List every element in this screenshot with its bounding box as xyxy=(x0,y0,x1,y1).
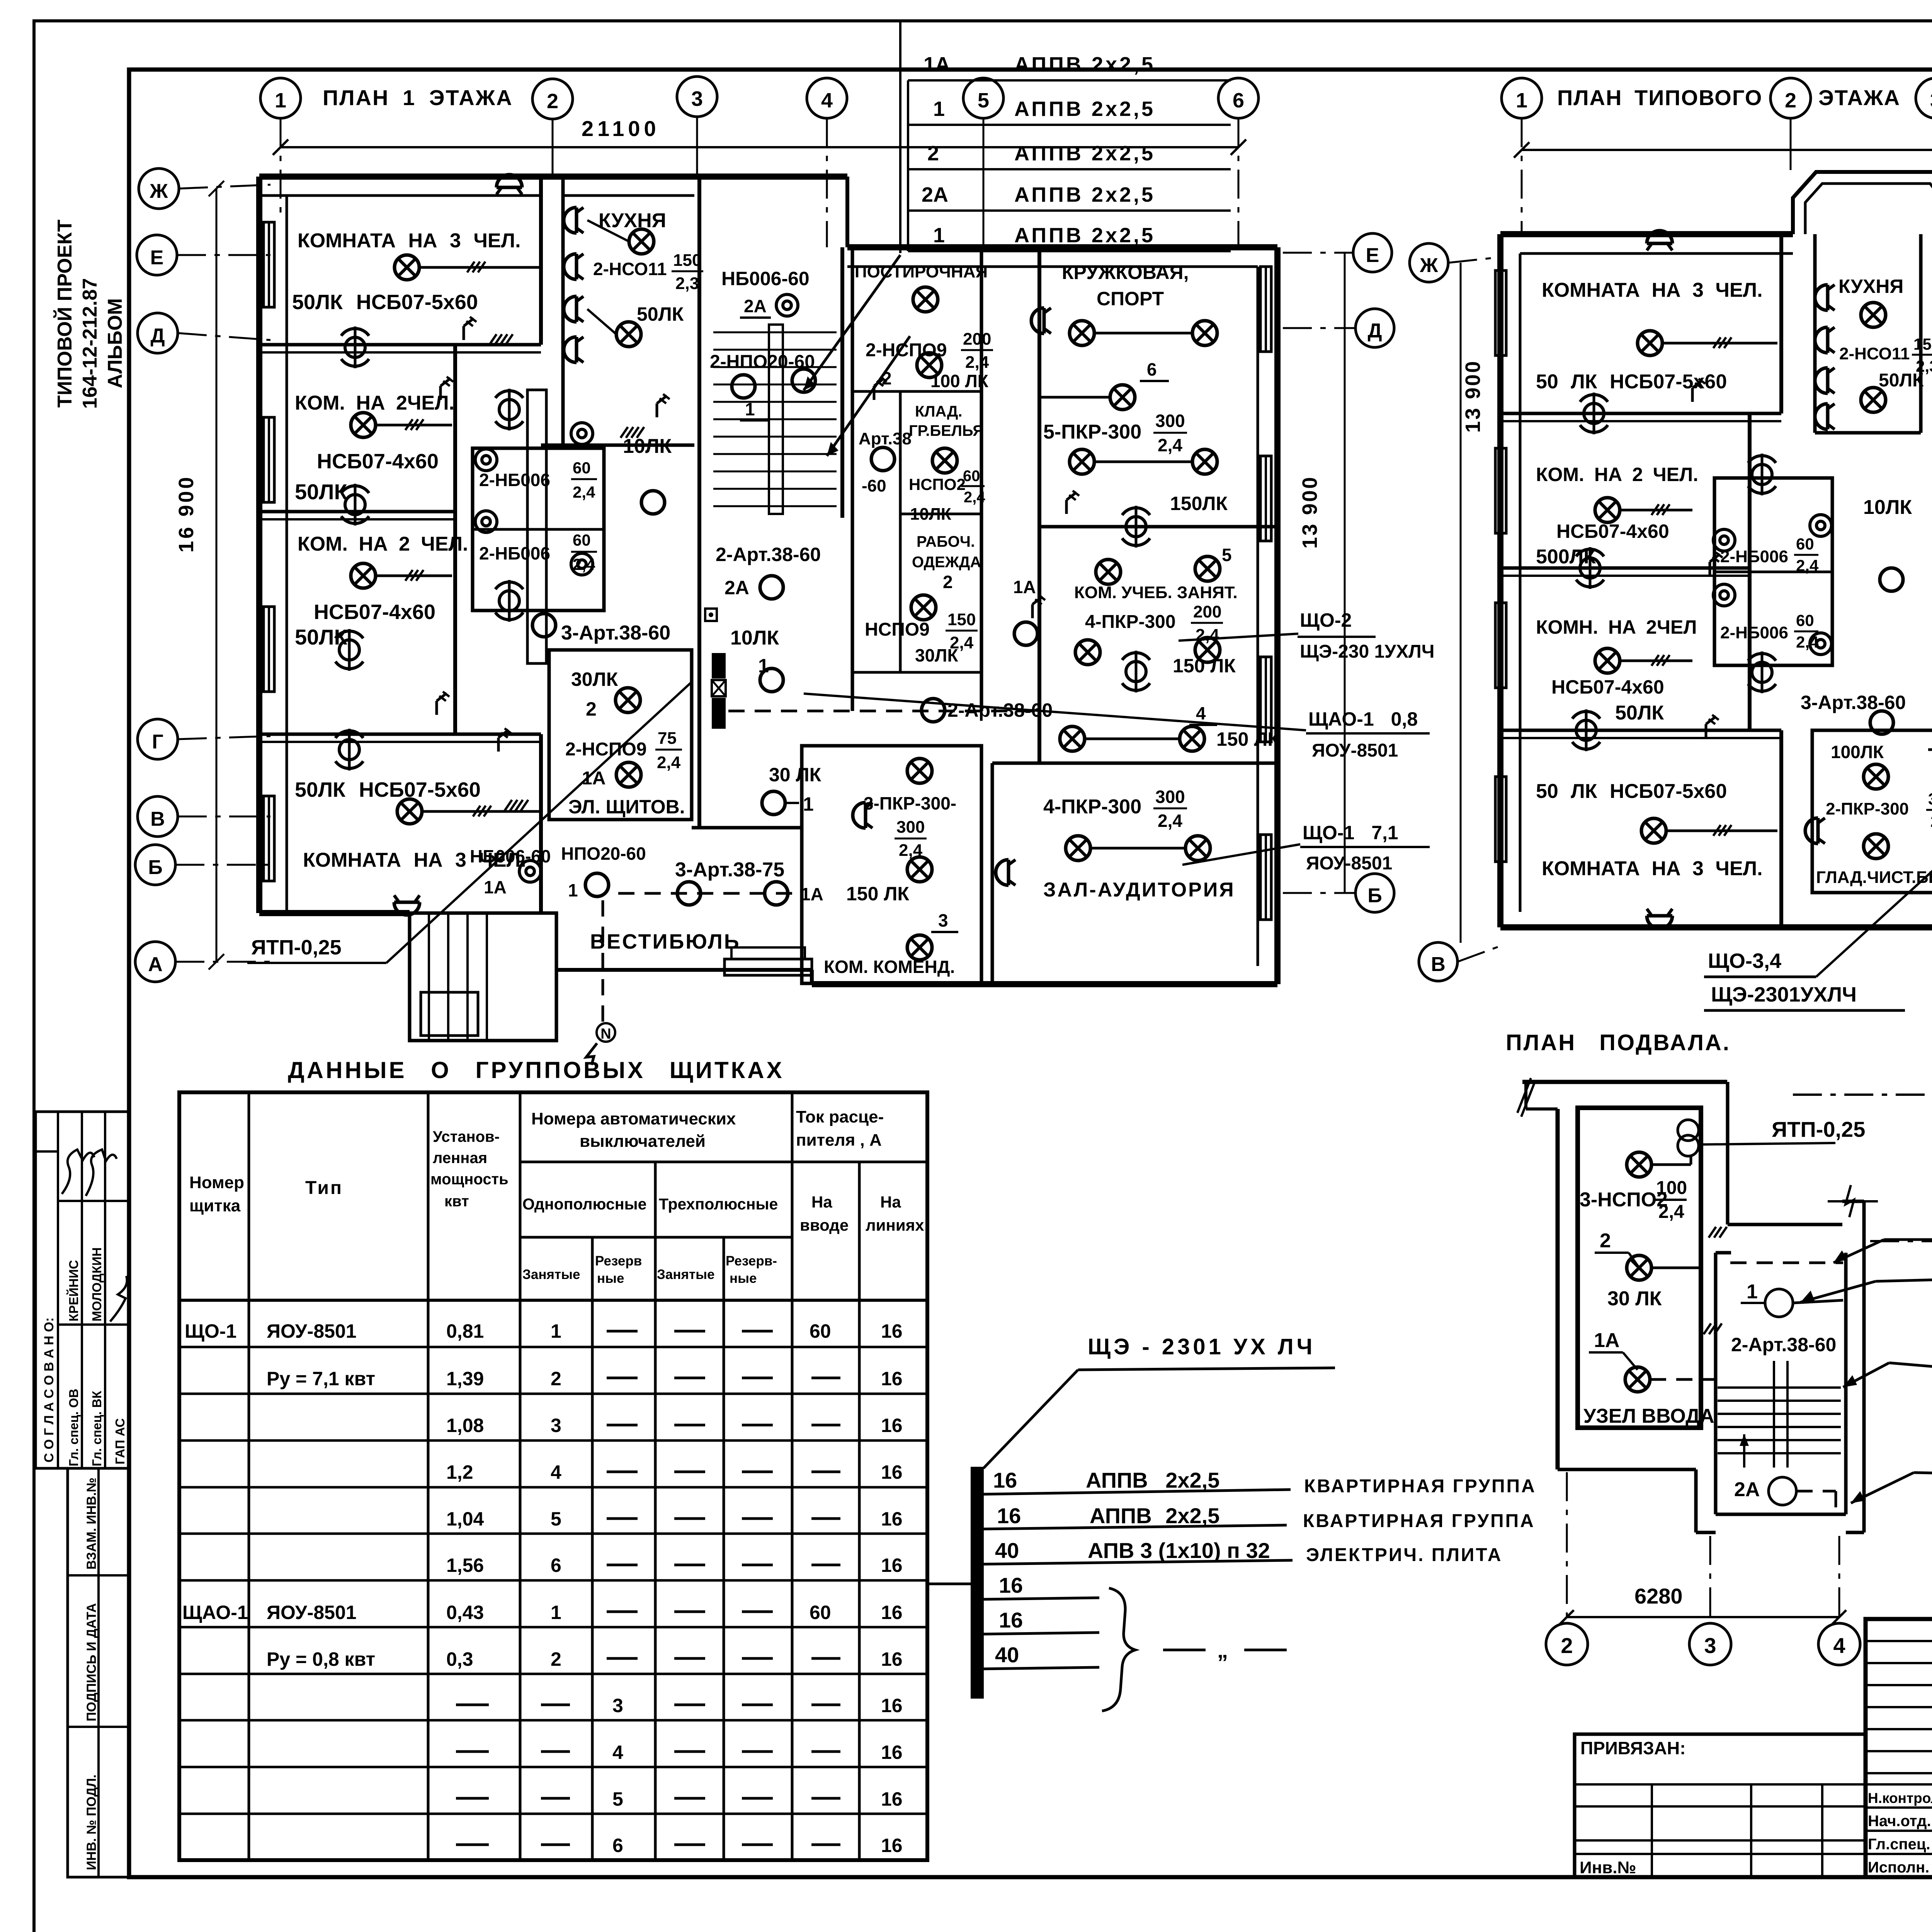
svg-text:1,39: 1,39 xyxy=(446,1368,484,1389)
sconce xyxy=(853,803,872,828)
room box xyxy=(549,650,692,820)
svg-text:30ЛК: 30ЛК xyxy=(915,645,958,665)
porch inner pad xyxy=(421,992,478,1036)
svg-text:30ЛК: 30ЛК xyxy=(571,668,618,690)
kitchen left wall xyxy=(561,177,565,445)
svg-text:Ру = 7,1 квт: Ру = 7,1 квт xyxy=(267,1368,375,1389)
svg-text:2-НБ006: 2-НБ006 xyxy=(1720,547,1788,566)
svg-text:16: 16 xyxy=(881,1320,903,1342)
axis Б right xyxy=(1355,874,1394,912)
svg-text:16: 16 xyxy=(881,1742,903,1763)
axis circle 4 xyxy=(1818,1623,1860,1665)
svg-text:1А: 1А xyxy=(923,53,950,76)
vestibule top wall xyxy=(692,826,802,830)
svg-text:В: В xyxy=(1431,953,1446,976)
svg-text:Занятые: Занятые xyxy=(657,1267,714,1282)
НБ006 fixture 4 xyxy=(571,553,593,575)
svg-text:вводе: вводе xyxy=(800,1216,849,1234)
svg-text:300: 300 xyxy=(896,818,925,837)
svg-text:КОМН. НА 2ЧЕЛ: КОМН. НА 2ЧЕЛ xyxy=(1536,616,1697,638)
svg-text:3-ПКР-300-: 3-ПКР-300- xyxy=(864,793,956,813)
room узел ввода xyxy=(1578,1108,1701,1428)
san roses xyxy=(495,389,523,430)
svg-text:2,4: 2,4 xyxy=(1796,633,1819,651)
svg-text:ВЕСТИБЮЛЬ: ВЕСТИБЮЛЬ xyxy=(590,930,741,953)
brace xyxy=(1102,1588,1135,1711)
svg-text:Б: Б xyxy=(148,856,162,879)
stair treads xyxy=(1718,1386,1841,1389)
svg-text:КОМ. НА 2 ЧЕЛ.: КОМ. НА 2 ЧЕЛ. xyxy=(298,533,468,555)
svg-text:НСБ07-4х60: НСБ07-4х60 xyxy=(1556,520,1669,542)
svg-text:50ЛК: 50ЛК xyxy=(1879,370,1924,391)
svg-text:ГР.БЕЛЬЯ: ГР.БЕЛЬЯ xyxy=(909,422,984,439)
svg-text:13 900: 13 900 xyxy=(1461,360,1485,433)
switch R4 xyxy=(498,728,511,752)
panel box with X xyxy=(712,680,726,696)
svg-text:100: 100 xyxy=(1656,1178,1687,1198)
grid circle 6 xyxy=(1218,78,1259,118)
sconce xyxy=(996,860,1015,885)
svg-text:ЯОУ-8501: ЯОУ-8501 xyxy=(267,1602,357,1623)
porch outline xyxy=(410,913,556,1041)
svg-text:2-НБ006: 2-НБ006 xyxy=(479,470,550,490)
svg-text:Резерв: Резерв xyxy=(595,1253,642,1269)
wire R3 xyxy=(376,575,452,577)
svg-text:Нач.отд.: Нач.отд. xyxy=(1868,1813,1931,1830)
axis Ж xyxy=(139,168,179,209)
svg-text:Тип: Тип xyxy=(305,1178,343,1198)
partition xyxy=(1037,247,1041,763)
lamp xyxy=(871,447,895,471)
svg-text:НСБ07-4х60: НСБ07-4х60 xyxy=(317,450,439,473)
room box xyxy=(851,247,854,711)
grid circle 3 xyxy=(677,77,717,117)
svg-text:2-НСПО9: 2-НСПО9 xyxy=(866,340,947,361)
svg-text:2,4: 2,4 xyxy=(1796,556,1819,575)
svg-text:линиях: линиях xyxy=(866,1216,924,1234)
svg-text:5: 5 xyxy=(612,1788,623,1810)
svg-text:Гл. спец. ВК: Гл. спец. ВК xyxy=(90,1391,104,1466)
lamp 1 xyxy=(760,668,783,692)
svg-text:ЩО-1 7,1: ЩО-1 7,1 xyxy=(1303,822,1398,844)
corridor lamp xyxy=(641,491,665,514)
svg-text:2: 2 xyxy=(1785,89,1796,112)
svg-text:50ЛК: 50ЛК xyxy=(1615,702,1664,724)
axis В xyxy=(138,796,178,837)
svg-text:Номера автоматических: Номера автоматических xyxy=(531,1109,736,1128)
svg-text:ПЛАН ПОДВАЛА.: ПЛАН ПОДВАЛА. xyxy=(1506,1030,1731,1055)
svg-text:30 ЛК: 30 ЛК xyxy=(769,764,821,786)
room divider R3/R4 xyxy=(259,733,541,736)
svg-text:С О Г Л А С О В А Н О:: С О Г Л А С О В А Н О: xyxy=(42,1317,56,1463)
svg-text:2,4: 2,4 xyxy=(573,555,595,573)
svg-text:ГАП АС: ГАП АС xyxy=(113,1418,127,1464)
lamps row1 xyxy=(1070,321,1094,345)
svg-text:2,3: 2,3 xyxy=(675,274,699,293)
switches xyxy=(1710,553,1723,576)
svg-text:ЩО-1: ЩО-1 xyxy=(185,1320,236,1342)
svg-text:выключателей: выключателей xyxy=(580,1132,706,1151)
svg-text:АППВ 2х2,5: АППВ 2х2,5 xyxy=(1014,53,1155,76)
kitchen lamp 2 xyxy=(616,322,641,347)
svg-text:Резерв-: Резерв- xyxy=(726,1253,777,1269)
dividers xyxy=(1500,412,1781,415)
svg-text:2А: 2А xyxy=(744,296,767,316)
svg-text:2-Арт.38-60: 2-Арт.38-60 xyxy=(716,544,821,565)
left wall xyxy=(1497,234,1503,927)
svg-text:КВАРТИРНАЯ ГРУППА: КВАРТИРНАЯ ГРУППА xyxy=(1303,1511,1535,1531)
walls xyxy=(802,746,981,983)
pendant R1 xyxy=(497,175,522,194)
leader underline xyxy=(1078,1368,1335,1370)
svg-text:2-НБ006: 2-НБ006 xyxy=(479,543,550,563)
switch xyxy=(874,377,887,400)
svg-text:Д: Д xyxy=(1367,320,1382,342)
svg-text:КОМ. УЧЕБ. ЗАНЯТ.: КОМ. УЧЕБ. ЗАНЯТ. xyxy=(1074,583,1238,602)
svg-text:НБ006-60: НБ006-60 xyxy=(721,268,810,289)
homerun diagonal 2 xyxy=(827,336,910,456)
svg-text:1: 1 xyxy=(568,880,578,900)
feeder line 2 xyxy=(984,1525,1287,1529)
svg-text:1: 1 xyxy=(933,224,945,247)
inner wall faces plan2 xyxy=(1519,253,1522,912)
svg-text:4: 4 xyxy=(821,89,833,112)
busbar xyxy=(971,1467,984,1699)
svg-text:300: 300 xyxy=(1155,787,1185,807)
svg-text:мощность: мощность xyxy=(430,1171,509,1188)
switch R1 xyxy=(464,317,476,340)
привязан block xyxy=(1575,1734,1866,1877)
lamp R2 xyxy=(351,413,376,437)
leader from ятп xyxy=(386,682,692,963)
svg-text:КОМ. НА 2 ЧЕЛ.: КОМ. НА 2 ЧЕЛ. xyxy=(1536,464,1698,485)
feeder line 5 xyxy=(984,1633,1099,1634)
svg-text:60: 60 xyxy=(963,468,980,485)
svg-text:АППВ 2х2,5: АППВ 2х2,5 xyxy=(1014,142,1155,165)
svg-text:2-ПКР-300: 2-ПКР-300 xyxy=(1826,799,1909,818)
svg-text:ПОСТИРОЧНАЯ: ПОСТИРОЧНАЯ xyxy=(855,262,988,281)
svg-text:100 ЛК: 100 ЛК xyxy=(930,371,989,391)
wire R4 xyxy=(422,810,539,813)
kitchen wires xyxy=(587,220,629,241)
svg-text:ЭТАЖА: ЭТАЖА xyxy=(1818,85,1900,110)
svg-text:Номер: Номер xyxy=(189,1173,244,1192)
svg-text:НСБ07-4х60: НСБ07-4х60 xyxy=(1551,676,1664,698)
svg-text:КОМНАТА НА 3 ЧЕЛ.: КОМНАТА НА 3 ЧЕЛ. xyxy=(1542,279,1763,301)
svg-text:4: 4 xyxy=(1196,703,1206,723)
rose on divider 1 xyxy=(341,327,369,368)
svg-text:16: 16 xyxy=(881,1835,903,1856)
svg-text:200: 200 xyxy=(963,330,991,349)
wire lamp2 right xyxy=(1651,1267,1701,1269)
lamp xyxy=(1638,331,1662,355)
svg-text:НПО20-60: НПО20-60 xyxy=(561,844,646,864)
svg-text:1: 1 xyxy=(551,1602,561,1623)
svg-text:2,4: 2,4 xyxy=(1930,812,1932,830)
svg-text:2А: 2А xyxy=(1734,1478,1760,1501)
bottom left wall step xyxy=(1558,1468,1696,1471)
outer wall bottom right xyxy=(812,981,1277,987)
approval stamp block xyxy=(36,1112,129,1468)
svg-text:1: 1 xyxy=(275,89,286,112)
svg-text:СПОРТ: СПОРТ xyxy=(1097,288,1164,310)
svg-text:16 900: 16 900 xyxy=(175,475,198,553)
svg-text:200: 200 xyxy=(1193,602,1221,621)
dashed wire 2А xyxy=(1796,1490,1836,1493)
svg-text:5: 5 xyxy=(551,1508,561,1530)
svg-text:13 900: 13 900 xyxy=(1298,476,1321,549)
svg-text:Н.контроль: Н.контроль xyxy=(1868,1790,1932,1806)
rooms right wall xyxy=(1779,234,1783,413)
fixture xyxy=(519,861,541,882)
svg-text:РАБОЧ.: РАБОЧ. xyxy=(917,533,975,550)
lamps row3 xyxy=(1060,726,1085,751)
svg-text:60: 60 xyxy=(810,1320,831,1342)
header horizontals xyxy=(520,1161,927,1163)
lamp 1 stair xyxy=(1765,1289,1793,1317)
svg-text:0,3: 0,3 xyxy=(446,1648,473,1670)
sanitary divider xyxy=(473,528,604,531)
lamps row2 xyxy=(1075,640,1100,665)
svg-text:УЗЕЛ ВВОДА: УЗЕЛ ВВОДА xyxy=(1583,1405,1714,1427)
svg-text:3-Арт.38-75: 3-Арт.38-75 xyxy=(675,859,784,881)
svg-text:НСПО9: НСПО9 xyxy=(865,619,930,640)
svg-text:ЩЭ-2301УХЛЧ: ЩЭ-2301УХЛЧ xyxy=(1711,983,1857,1006)
wire R1 xyxy=(419,266,539,269)
lamp v1 xyxy=(677,882,701,905)
svg-text:Однополюсные: Однополюсные xyxy=(522,1195,646,1213)
svg-text:ОДЕЖДА: ОДЕЖДА xyxy=(912,554,981,571)
svg-text:ДАННЫЕ О ГРУППОВЫХ ЩИТКАХ: ДАННЫЕ О ГРУППОВЫХ ЩИТКАХ xyxy=(288,1057,784,1083)
outer wall right xyxy=(1274,247,1281,984)
svg-text:КВАРТИРНАЯ ГРУППА: КВАРТИРНАЯ ГРУППА xyxy=(1304,1476,1536,1497)
inner face of outer walls xyxy=(286,196,288,913)
outer wall top left section xyxy=(259,173,847,180)
НБ006 fixture 1 xyxy=(475,449,497,471)
stair arrow xyxy=(1743,1434,1745,1468)
svg-text:16: 16 xyxy=(881,1368,903,1389)
svg-text:3-Арт.38-60: 3-Арт.38-60 xyxy=(561,622,670,644)
west rooms right wall upper xyxy=(539,177,543,345)
svg-text:150 ЛК: 150 ЛК xyxy=(1173,655,1236,677)
svg-text:ные: ные xyxy=(730,1271,757,1286)
svg-text:5: 5 xyxy=(1222,545,1232,565)
feeder line 1 xyxy=(984,1490,1291,1494)
feeder bus vertical xyxy=(907,80,909,251)
svg-text:10ЛК: 10ЛК xyxy=(910,505,951,524)
rose on divider 2 xyxy=(341,484,369,526)
svg-text:ЩАО-1: ЩАО-1 xyxy=(182,1602,248,1623)
svg-text:150: 150 xyxy=(673,251,701,270)
svg-text:0,81: 0,81 xyxy=(446,1320,484,1342)
svg-text:50ЛК НСБ07-5х60: 50ЛК НСБ07-5х60 xyxy=(292,291,478,314)
svg-text:3: 3 xyxy=(1704,1633,1716,1658)
corridor wall right of узел ввода xyxy=(1726,1082,1730,1225)
svg-text:НСБ07-4х60: НСБ07-4х60 xyxy=(314,600,435,624)
svg-text:А: А xyxy=(148,953,163,976)
verticals xyxy=(248,1092,250,1860)
svg-text:16: 16 xyxy=(881,1508,903,1530)
svg-text:6280: 6280 xyxy=(1634,1584,1683,1608)
svg-text:ПЛАН ТИПОВОГО: ПЛАН ТИПОВОГО xyxy=(1557,85,1762,110)
switch R2 xyxy=(440,377,453,400)
N arrow xyxy=(597,1023,615,1042)
divider double lines xyxy=(259,351,541,354)
svg-text:100ЛК: 100ЛК xyxy=(1831,742,1884,762)
sanitary box xyxy=(473,448,604,611)
svg-text:2: 2 xyxy=(547,90,558,113)
axis Д xyxy=(138,313,178,353)
feeder line 6 xyxy=(984,1667,1099,1669)
svg-text:10ЛК: 10ЛК xyxy=(623,435,672,457)
svg-text:КОМ. КОМЕНД.: КОМ. КОМЕНД. xyxy=(824,957,955,977)
corridor wall xyxy=(697,177,701,828)
lamp xyxy=(932,448,957,473)
svg-text:1: 1 xyxy=(1516,89,1527,112)
svg-text:4: 4 xyxy=(551,1461,561,1483)
svg-text:ЩО-3,4: ЩО-3,4 xyxy=(1708,949,1781,973)
dashed riser down xyxy=(602,900,604,1028)
svg-text:16: 16 xyxy=(881,1461,903,1483)
svg-text:квт: квт xyxy=(444,1193,469,1210)
svg-text:щитка: щитка xyxy=(189,1196,241,1215)
svg-text:ленная: ленная xyxy=(433,1150,487,1167)
svg-text:150 ЛК: 150 ЛК xyxy=(1216,728,1279,750)
svg-text:2: 2 xyxy=(586,698,597,720)
bottom wall left section xyxy=(1500,924,1932,930)
corridor lamp art xyxy=(532,614,556,637)
svg-text:Ток расце-: Ток расце- xyxy=(796,1107,884,1126)
feeder line 4 xyxy=(984,1598,1099,1599)
НБ006 fixture 3 xyxy=(571,423,593,444)
svg-text:КРУЖКОВАЯ,: КРУЖКОВАЯ, xyxy=(1062,262,1189,283)
svg-text:1,2: 1,2 xyxy=(446,1461,473,1483)
svg-text:2: 2 xyxy=(551,1368,561,1389)
outer wall left xyxy=(256,177,262,913)
fixture xyxy=(776,294,798,316)
svg-text:ГЛАД.ЧИСТ.БЕЛ.: ГЛАД.ЧИСТ.БЕЛ. xyxy=(1816,868,1932,887)
lamp R4 xyxy=(397,799,422,824)
svg-text:ные: ные xyxy=(597,1271,624,1286)
svg-text:50 ЛК НСБ07-5х60: 50 ЛК НСБ07-5х60 xyxy=(1536,780,1727,803)
lamp 1 xyxy=(1627,1152,1651,1177)
window marks east wall xyxy=(1260,267,1271,352)
top arch bay xyxy=(1793,172,1932,234)
svg-text:Занятые: Занятые xyxy=(522,1267,580,1282)
rose on divider 3 xyxy=(335,729,363,770)
grid circle 1 xyxy=(260,78,301,118)
svg-text:КОМНАТА НА 3 ЧЕЛ.: КОМНАТА НА 3 ЧЕЛ. xyxy=(1542,857,1763,880)
svg-text:2,4: 2,4 xyxy=(657,753,681,772)
dashed wire vestibule xyxy=(618,892,796,895)
wire R2 xyxy=(376,424,452,427)
lamp 2-Арт.38-60 circle xyxy=(922,699,945,722)
svg-text:16: 16 xyxy=(881,1602,903,1623)
right outer wall xyxy=(1862,1201,1866,1532)
svg-text:ПЛАН 1 ЭТАЖА: ПЛАН 1 ЭТАЖА xyxy=(323,85,513,110)
grid circle 5 xyxy=(963,78,1003,118)
svg-text:2А: 2А xyxy=(922,183,948,206)
svg-text:АППВ 2х2,5: АППВ 2х2,5 xyxy=(1090,1503,1219,1528)
svg-text:3: 3 xyxy=(551,1415,561,1436)
svg-text:2-НБ006: 2-НБ006 xyxy=(1720,623,1788,642)
svg-text:АППВ 2х2,5: АППВ 2х2,5 xyxy=(1014,183,1155,206)
svg-text:Ж: Ж xyxy=(1420,254,1439,277)
data row lines xyxy=(179,1346,927,1349)
svg-text:3: 3 xyxy=(691,87,703,111)
svg-text:На: На xyxy=(811,1193,832,1211)
svg-text:16: 16 xyxy=(881,1648,903,1670)
wire xyxy=(784,802,799,804)
lower margin stamp xyxy=(68,1468,129,1877)
svg-text:Е: Е xyxy=(150,247,164,269)
wire right xyxy=(1793,1300,1843,1303)
svg-text:2: 2 xyxy=(551,1648,561,1670)
svg-text:164-12-212.87: 164-12-212.87 xyxy=(79,278,101,409)
НБ006 fixture 2 xyxy=(475,511,497,532)
svg-text:16: 16 xyxy=(881,1554,903,1576)
svg-text:Г: Г xyxy=(152,731,163,753)
svg-text:300: 300 xyxy=(1928,790,1932,808)
svg-text:ЩЭ - 2301 УХ ЛЧ: ЩЭ - 2301 УХ ЛЧ xyxy=(1088,1334,1315,1359)
svg-text:ТИПОВОЙ ПРОЕКТ: ТИПОВОЙ ПРОЕКТ xyxy=(53,219,76,408)
svg-text:НСПО2: НСПО2 xyxy=(909,475,966,493)
walls xyxy=(992,762,1277,765)
svg-text:Арт.38: Арт.38 xyxy=(859,429,912,448)
homerun diagonal 1 xyxy=(804,255,900,390)
svg-text:ЯОУ-8501: ЯОУ-8501 xyxy=(267,1320,357,1342)
svg-text:50ЛК НСБ07-5х60: 50ЛК НСБ07-5х60 xyxy=(295,778,481,801)
top wall left section xyxy=(1500,231,1793,237)
svg-text:50ЛК: 50ЛК xyxy=(637,303,684,325)
leader ЩО-2 xyxy=(1179,634,1298,641)
svg-text:50ЛК: 50ЛК xyxy=(295,480,348,504)
junction box xyxy=(705,609,717,621)
kitchen bottom wall xyxy=(541,444,694,447)
pendant R4 xyxy=(394,895,420,915)
axis Е right xyxy=(1353,233,1392,272)
rose xyxy=(1580,393,1608,434)
svg-text:16: 16 xyxy=(999,1573,1023,1597)
window marks west wall xyxy=(264,222,274,307)
rose xyxy=(1576,547,1604,589)
svg-text:2-НСО11: 2-НСО11 xyxy=(593,259,667,279)
svg-text:2,4: 2,4 xyxy=(1658,1202,1684,1222)
outer wall bottom west xyxy=(259,910,410,916)
svg-text:ЩАО-1 0,8: ЩАО-1 0,8 xyxy=(1308,708,1418,730)
stair right wall xyxy=(840,247,844,518)
svg-text:ИНВ. № ПОДЛ.: ИНВ. № ПОДЛ. xyxy=(84,1774,99,1870)
svg-text:АППВ 2х2,5: АППВ 2х2,5 xyxy=(1086,1468,1219,1492)
panel ЩО-1 black xyxy=(712,653,726,679)
svg-text:ЯОУ-8501: ЯОУ-8501 xyxy=(1306,853,1392,874)
panel ЩАО black xyxy=(712,698,726,729)
svg-text:3: 3 xyxy=(938,910,948,930)
svg-text:60: 60 xyxy=(810,1602,831,1623)
svg-text:2: 2 xyxy=(943,572,953,592)
svg-text:МОЛОДКИН: МОЛОДКИН xyxy=(90,1247,104,1321)
axis Б xyxy=(135,845,175,885)
svg-text:60: 60 xyxy=(1796,535,1814,553)
svg-text:1: 1 xyxy=(933,97,945,121)
svg-text:АППВ 2х2,5: АППВ 2х2,5 xyxy=(1014,97,1155,121)
svg-text:1,56: 1,56 xyxy=(446,1554,484,1576)
svg-text:6: 6 xyxy=(551,1554,561,1576)
svg-text:2А: 2А xyxy=(724,577,749,599)
svg-text:КУХНЯ: КУХНЯ xyxy=(1838,276,1903,297)
axis circle 2 xyxy=(1546,1623,1588,1665)
lamps row xyxy=(1096,560,1121,584)
